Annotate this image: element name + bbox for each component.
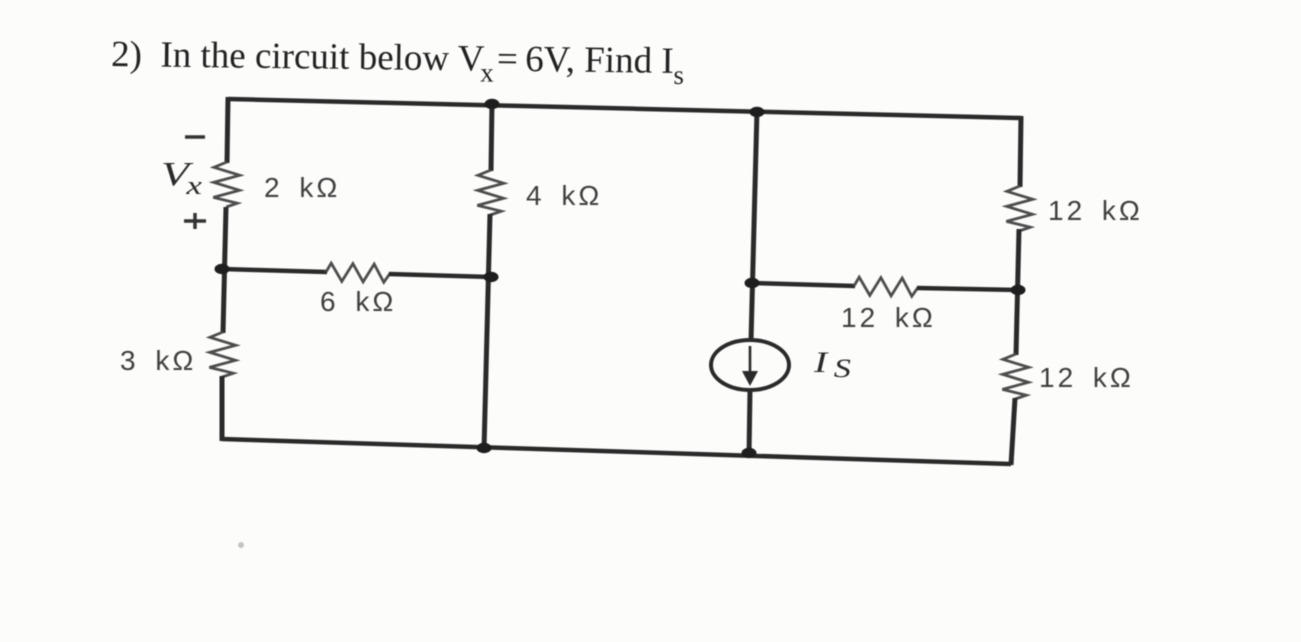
label IS [813,346,851,383]
resistor R 12k mid zigzag [854,277,918,296]
current source IS [711,340,789,390]
resistor R 2k zigzag [213,162,240,207]
svg-text:2) In the circuit below Vx =: 2) In the circuit below Vx = 6V, Find Is [111,34,685,90]
svg-text:2 kΩ: 2 kΩ [264,172,340,203]
label Vx plus [184,213,206,229]
wire top [228,99,1021,118]
wire mid-left vertical upper [491,102,492,171]
node mid-left-left [215,264,230,274]
node top-mid [485,99,500,109]
node mid-right-left [745,278,760,288]
wire left lower [220,376,225,441]
resistor R 6k zigzag [326,263,390,282]
label Vx [161,155,202,200]
wire mid-right vertical lower [749,390,750,455]
wire right mid [1016,229,1019,355]
svg-text:6 kΩ: 6 kΩ [320,286,396,317]
wire right upper [1020,116,1021,187]
node top-right-mid [750,107,765,117]
wire mid-left vertical lower [484,214,490,450]
wire mid-left horizontal (6k row) [222,269,327,272]
resistor R 3k zigzag [209,332,236,377]
node bottom-mid [477,443,492,453]
svg-text:Vx: Vx [161,155,202,200]
stray scan speck [238,542,244,548]
wire right lower [1011,398,1015,465]
svg-text:12 kΩ: 12 kΩ [1048,195,1143,226]
wire mid-right horizontal (12k row) [752,283,855,286]
resistor R 4k zigzag [477,170,504,215]
resistor R 12k bottom-right zigzag [1002,354,1029,399]
svg-text:3 kΩ: 3 kΩ [120,345,196,376]
svg-text:4 kΩ: 4 kΩ [526,180,602,211]
wire mid-right vertical upper [751,110,757,341]
svg-text:IS: IS [813,346,851,383]
wire bottom [222,439,1011,464]
wire left mid [223,207,226,333]
node mid-right-right [1011,285,1026,295]
label Vx minus [185,135,205,139]
resistor R 12k top-right zigzag [1006,186,1033,231]
svg-text:12 kΩ: 12 kΩ [1039,362,1134,393]
title [111,34,685,90]
svg-text:12 kΩ: 12 kΩ [841,302,936,333]
node mid-left-right [484,272,499,282]
node bottom-right-mid [742,448,757,458]
wire left upper [227,97,228,163]
